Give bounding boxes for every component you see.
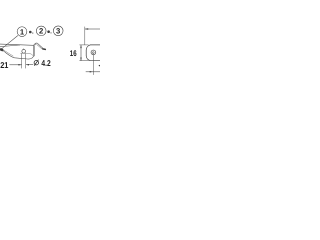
dim 21 line [9, 64, 21, 66]
separator blob B [47, 30, 50, 33]
bracket left end hole (dark) [0, 48, 4, 52]
svg-text:21: 21 [0, 60, 8, 70]
right plate hole outer [91, 50, 96, 55]
svg-text:16: 16 [70, 49, 77, 58]
dim 16 top extension [79, 44, 88, 46]
bracket right edge vertical [33, 45, 35, 57]
hole center tick [23, 48, 25, 51]
top-right extension line vertical [84, 27, 86, 45]
right plate hole inner [92, 52, 94, 54]
dim 16 arrow up [80, 45, 81, 48]
svg-text:1: 1 [20, 27, 25, 36]
flange bend up outer [34, 43, 38, 45]
bracket hole circle [22, 49, 26, 53]
bottom-right extension line from hole [92, 55, 94, 75]
svg-text:3: 3 [56, 27, 60, 36]
separator blob A [29, 31, 32, 34]
dia 4.2 arrowhead [26, 64, 29, 65]
separator dot B [50, 32, 51, 33]
right edge dash [98, 65, 100, 67]
balloon 1 [17, 27, 27, 37]
dia 4.2 extension line right [25, 54, 27, 69]
balloon 2 [36, 26, 46, 36]
bracket bottom edge inner line [3, 50, 13, 57]
bracket top edge (far) [0, 44, 34, 45]
diameter symbol [34, 61, 38, 65]
separator dot A [32, 33, 33, 34]
bracket bottom edge [3, 51, 33, 59]
bottom-right dim line [86, 71, 100, 73]
bracket mid edge line [20, 53, 33, 56]
bottom-right arrowhead [90, 71, 93, 73]
dim 16 arrow down [80, 58, 81, 61]
flange down-slope inner [37, 44, 42, 49]
dim 16 bottom extension [79, 60, 88, 62]
top-right dim line [85, 28, 100, 30]
bracket top edge (near) [0, 45, 20, 47]
top-right arrowhead left [85, 28, 88, 30]
right plate outline [86, 45, 100, 61]
svg-text:2: 2 [39, 27, 43, 36]
flange tip [43, 48, 46, 51]
dia 4.2 extension line left [21, 54, 23, 69]
svg-text:4.2: 4.2 [41, 58, 51, 68]
dim 16 line [80, 45, 82, 60]
balloon 3 [53, 26, 63, 36]
flange down-slope outer [37, 43, 42, 48]
dim 21 arrowhead [18, 64, 21, 66]
flange bend up inner [35, 44, 37, 45]
dia 4.2 dim line right [26, 64, 33, 66]
leader line from balloon 1 [2, 36, 18, 49]
